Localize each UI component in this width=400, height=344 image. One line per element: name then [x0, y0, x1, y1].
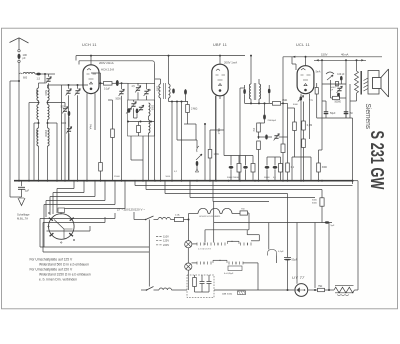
wire: [45, 73, 55, 75]
svg-text:5000: 5000: [116, 99, 122, 101]
wire: [300, 94, 302, 96]
svg-text:125V: 125V: [163, 239, 169, 243]
wire: [292, 63, 296, 65]
wire: [184, 123, 196, 125]
wire: [18, 74, 20, 81]
wire: [345, 114, 347, 118]
wire: [128, 121, 154, 123]
wire: [317, 117, 353, 119]
wire route1: [134, 181, 136, 186]
wire left bus: [9, 81, 11, 181]
wire: [352, 118, 354, 184]
inductor osc coil: [149, 120, 151, 133]
resistor 0,3M: [302, 121, 306, 130]
wire: [244, 85, 246, 89]
svg-text:UCH11 UCL11 UBF11: UCH11 UCL11 UBF11: [199, 216, 221, 218]
trimmer capacitor: [144, 91, 148, 93]
wire: [188, 214, 190, 241]
arrowhead: [317, 60, 319, 62]
inductor IF2 primary: [249, 84, 251, 99]
capacitor blob: [340, 76, 343, 81]
svg-text:UY 77: UY 77: [292, 275, 305, 280]
junction: [47, 180, 49, 182]
resistor 3000: [320, 198, 324, 206]
wire: [141, 289, 147, 291]
svg-text:Widerstand 3150 Ω in e.b einba: Widerstand 3150 Ω in e.b einbauen: [39, 272, 91, 276]
junction: [181, 180, 183, 182]
capacitor blob: [136, 109, 139, 114]
svg-text:1,5: 1,5: [37, 78, 41, 81]
switch tip contacts: [48, 226, 49, 227]
capacitor blob: [273, 166, 278, 169]
wire: [79, 60, 153, 62]
resistor: [257, 141, 261, 150]
capacitor blob: [265, 135, 268, 140]
contact row 2b: [229, 262, 243, 265]
wire lineB: [205, 229, 249, 231]
wire: [310, 157, 312, 181]
tube U3 internals: [301, 68, 311, 85]
tube U3 UCL11: [297, 66, 314, 94]
junction: [318, 180, 320, 182]
resistor bank: [237, 164, 241, 173]
resistor: [104, 82, 113, 86]
wire anode: [296, 223, 298, 284]
junction: [287, 180, 289, 182]
output transformer primary: [355, 71, 359, 93]
wire: [245, 156, 247, 166]
resistor 760: [240, 211, 248, 215]
junction: [73, 180, 75, 182]
fuse box: [175, 217, 184, 221]
wire wrap: [40, 218, 115, 220]
wire: [154, 219, 159, 221]
wire: [268, 85, 270, 88]
wire bus bottom: [214, 289, 294, 291]
resistor small: [336, 82, 339, 87]
tube U1 internals: [87, 69, 97, 85]
junction: [142, 180, 144, 182]
wire: [90, 56, 92, 65]
resistor: [281, 144, 285, 153]
wire: [266, 157, 268, 165]
inductor IF1 secondary: [169, 84, 171, 98]
wire: [336, 84, 338, 86]
svg-text:UCH 11: UCH 11: [82, 43, 97, 47]
capacitor 100pF: [18, 54, 21, 59]
speaker magnet: [373, 78, 382, 89]
resistor 1M: [272, 102, 280, 106]
wire: [238, 156, 240, 164]
wire: [246, 230, 248, 235]
contact row 1: [197, 243, 225, 246]
switch feed plate: [58, 208, 65, 213]
wire: [176, 102, 178, 141]
wire: [33, 123, 35, 181]
wire: [340, 81, 342, 84]
wire: [100, 83, 102, 162]
heater chain: [198, 208, 232, 213]
antenna: [10, 38, 29, 43]
capacitor 25000pF: [263, 114, 266, 120]
svg-text:M,B,L,TA: M,B,L,TA: [17, 217, 28, 221]
wire: [314, 59, 366, 61]
junction: [321, 180, 323, 182]
capacitor blob: [337, 93, 339, 97]
svg-text:5000: 5000: [35, 90, 38, 96]
trimmer capacitor: [337, 88, 341, 90]
svg-text:P≙A: P≙A: [89, 124, 92, 130]
trimmer capacitor: [63, 109, 67, 111]
trimmer capacitor: [67, 129, 71, 131]
junction: [282, 180, 284, 182]
resistor 1M: [208, 150, 212, 159]
svg-text:Für Umschaltplatte auf 220 V: Für Umschaltplatte auf 220 V: [30, 267, 73, 271]
capacitor 5uF: [18, 187, 25, 189]
junction: [287, 289, 289, 291]
junction: [215, 180, 217, 182]
selector dashes: [156, 236, 162, 245]
mains choke top: [158, 218, 171, 220]
capacitor blob: [265, 166, 270, 169]
resistor: [286, 163, 290, 172]
wire: [77, 85, 79, 89]
lamp La2: [185, 263, 192, 270]
wire: [154, 289, 160, 291]
capacitor 50uF: [284, 258, 291, 260]
wire: [196, 140, 198, 148]
capacitor blob: [243, 166, 248, 169]
contact row 2: [197, 262, 211, 265]
svg-text:5000 25000: 5000 25000: [227, 177, 239, 179]
wire: [146, 83, 148, 89]
trimmer capacitor: [139, 107, 143, 109]
wire: [279, 136, 288, 138]
junction: [100, 82, 102, 84]
trimmer capacitor: [66, 91, 70, 93]
svg-text:25000pF: 25000pF: [268, 120, 277, 122]
wire wrap: [43, 222, 105, 224]
resistor: [317, 163, 321, 172]
junction: [254, 180, 256, 182]
svg-text:2 MΩ: 2 MΩ: [191, 107, 197, 111]
fuse ZAB: [238, 291, 246, 295]
wire: [38, 101, 40, 105]
wire: [128, 82, 155, 84]
junction: [64, 180, 66, 182]
wire: [104, 181, 106, 201]
wire: [308, 289, 318, 291]
node: [18, 60, 20, 62]
wire: [43, 251, 149, 253]
resistor small: [137, 126, 141, 133]
inductor tuning coil a: [37, 105, 39, 120]
junction: [282, 102, 284, 104]
trimmer capacitor: [131, 104, 135, 106]
junction: [171, 180, 173, 182]
wire: [48, 84, 89, 86]
svg-text:5µF: 5µF: [331, 225, 335, 227]
wire route4: [189, 181, 191, 198]
resistor bank: [251, 164, 255, 173]
svg-text:50000: 50000: [335, 102, 342, 104]
wire: [287, 103, 289, 163]
junction: [345, 59, 347, 61]
svg-text:40mA: 40mA: [341, 53, 348, 57]
resistor cathode: [99, 163, 103, 172]
wire: [64, 103, 66, 107]
rectifier UY77: [295, 284, 308, 297]
junction: [121, 180, 123, 182]
wire: [267, 156, 281, 158]
wire: [94, 181, 96, 197]
inductor osc coil: [149, 103, 151, 116]
svg-text:0,1µF: 0,1µF: [278, 251, 284, 253]
wire: [314, 223, 316, 289]
svg-text:Schaltlage: Schaltlage: [17, 213, 30, 217]
junction: [90, 55, 92, 57]
inductor IF2 secondary: [259, 84, 261, 99]
wire: [268, 223, 270, 250]
wire: [18, 81, 20, 181]
wire: [294, 131, 296, 158]
wire: [264, 103, 266, 114]
junction: [352, 180, 354, 182]
svg-text:6000: 6000: [312, 203, 318, 205]
capacitor small: [200, 282, 205, 284]
tone switch: [326, 72, 334, 74]
capacitor blob: [229, 166, 234, 169]
wire: [303, 102, 305, 122]
junction: [196, 180, 198, 182]
junction: [18, 180, 20, 182]
wire: [94, 93, 96, 130]
mains choke bottom: [159, 288, 172, 290]
wire: [19, 73, 22, 74]
capacitor blob: [172, 89, 175, 94]
capacitor electrolytic: [344, 112, 349, 114]
wire: [114, 181, 116, 205]
wire lineA: [214, 222, 269, 224]
wire: [316, 83, 318, 88]
wire: [258, 132, 260, 139]
switch rotor contacts: [49, 218, 74, 237]
inductor tuning coil b: [48, 105, 50, 120]
wire: [68, 85, 70, 89]
ground bus: [14, 180, 353, 182]
tube U2 UBF11: [212, 64, 228, 96]
wire: [154, 63, 156, 180]
junction: [219, 55, 221, 57]
junction: [134, 180, 136, 182]
inductor tuning coil b: [48, 128, 50, 146]
wire: [138, 122, 140, 126]
capacitor blob: [196, 161, 199, 166]
junction: [352, 180, 354, 182]
wire: [41, 73, 45, 75]
junction: [121, 82, 123, 84]
wire: [68, 117, 70, 127]
svg-text:75Ω: 75Ω: [318, 286, 323, 288]
wire: [169, 101, 189, 103]
contact dots 2: [203, 262, 204, 263]
wire: [258, 150, 260, 181]
trimmer capacitor: [136, 88, 140, 90]
junction: [250, 102, 252, 104]
wire: [39, 82, 46, 84]
wire: [331, 97, 333, 99]
capacitor pack: [228, 266, 242, 271]
wire: [75, 56, 77, 61]
svg-text:UBF 11: UBF 11: [213, 43, 227, 47]
wire: [223, 96, 225, 131]
resistor 2M: [186, 105, 190, 113]
inductor tuning coil b: [48, 88, 50, 101]
wire: [127, 83, 129, 100]
junction: [258, 136, 260, 138]
wire: [318, 150, 320, 163]
wire: [56, 123, 58, 181]
junction: [303, 180, 305, 182]
resistor 75: [318, 288, 325, 291]
svg-text:3000: 3000: [61, 123, 67, 125]
wire: [160, 79, 162, 84]
NTC resistor: [334, 287, 354, 293]
junction: [204, 123, 206, 125]
wire: [171, 219, 175, 221]
wire: [248, 212, 250, 214]
capacitor blob: [184, 89, 187, 95]
wire: [280, 157, 282, 164]
wire: [224, 155, 253, 157]
wire: [133, 212, 135, 220]
output transformer secondary: [364, 78, 369, 91]
svg-text:5µF: 5µF: [25, 190, 30, 193]
wire: [35, 73, 37, 75]
junction: [321, 59, 323, 61]
wire: [230, 156, 232, 166]
junction: [56, 180, 58, 182]
resistor cathode3: [315, 88, 318, 95]
junction: [100, 180, 102, 182]
wire lineA2: [269, 222, 332, 224]
svg-text:1M: 1M: [252, 128, 255, 131]
svg-text:15000: 15000: [35, 130, 38, 137]
mains switch top: [146, 216, 154, 220]
shield box: [128, 100, 155, 136]
contact dots 1: [204, 243, 205, 244]
capacitor blob: [268, 89, 271, 94]
tube U1 UCH11: [83, 65, 99, 94]
junction: [268, 180, 270, 182]
capacitor trimmer blob: [300, 96, 303, 101]
wire: [245, 102, 273, 104]
wire: [287, 194, 289, 258]
svg-text:S 231 GW: S 231 GW: [367, 131, 387, 190]
wire: [345, 60, 347, 118]
wire: [99, 82, 104, 84]
inductor tuning coil a: [37, 128, 39, 146]
wire: [133, 100, 135, 102]
capacitor blob: [243, 89, 246, 94]
speaker horn: [381, 69, 389, 97]
svg-text:1MΩ: 1MΩ: [214, 153, 219, 156]
svg-text:200V 1mA: 200V 1mA: [224, 61, 237, 65]
svg-text:110V: 110V: [163, 234, 169, 238]
junction: [305, 56, 307, 58]
wire: [287, 172, 289, 181]
wire: [239, 88, 241, 181]
junction: [168, 55, 170, 57]
svg-text:Für Umschaltplatte auf 125 V: Für Umschaltplatte auf 125 V: [30, 258, 73, 262]
wire route3: [164, 181, 166, 194]
svg-text:50000: 50000: [264, 177, 270, 179]
junction: [209, 180, 211, 182]
wire: [121, 83, 123, 89]
wire: [223, 130, 225, 156]
wire top bus: [76, 55, 245, 57]
wire: [354, 289, 358, 291]
wire: [321, 60, 323, 150]
svg-text:0,1A: 0,1A: [175, 214, 180, 217]
junction: [250, 55, 252, 57]
junction: [44, 73, 46, 75]
junction: [239, 180, 241, 182]
capacitor electrolytic: [324, 112, 329, 114]
wire: [21, 181, 23, 187]
resistor: [257, 123, 261, 132]
capacitor small: [207, 282, 212, 284]
trimmer blob: [127, 108, 130, 113]
thermal cutout: [267, 250, 276, 256]
inductor antenna coil: [23, 73, 35, 75]
wire: [18, 63, 20, 74]
svg-text:3000: 3000: [312, 200, 318, 202]
junction blob: [325, 221, 330, 223]
wire: [322, 83, 346, 85]
svg-text:UCL 11: UCL 11: [296, 43, 310, 47]
junction: [171, 101, 173, 103]
svg-text:5000: 5000: [156, 86, 158, 92]
wire: [18, 42, 20, 50]
ground: [18, 198, 25, 206]
wire: [219, 96, 221, 99]
wire: [61, 85, 63, 181]
junction: [228, 180, 230, 182]
wire: [356, 60, 358, 71]
svg-text:15000: 15000: [44, 130, 47, 137]
inductor IF1 primary: [159, 84, 161, 98]
wire: [349, 84, 351, 118]
wire: [137, 83, 139, 86]
wire: [252, 156, 254, 164]
svg-text:ZAB 500Ω: ZAB 500Ω: [222, 293, 233, 296]
wire: [47, 101, 49, 105]
junction: [86, 180, 88, 182]
wire: [305, 57, 307, 66]
IF1 core: [163, 83, 165, 99]
wire route2: [145, 181, 147, 190]
wire: [86, 93, 88, 180]
wire route5: [212, 181, 214, 202]
trimmer capacitor: [46, 79, 50, 81]
svg-text:5000: 5000: [293, 104, 299, 106]
wire: [357, 181, 359, 281]
inductor tuning coil a: [37, 88, 39, 101]
wire: [38, 83, 40, 88]
svg-text:1 2 3 4 5 6 7 8: 1 2 3 4 5 6 7 8: [198, 248, 212, 250]
wire: [288, 107, 295, 109]
